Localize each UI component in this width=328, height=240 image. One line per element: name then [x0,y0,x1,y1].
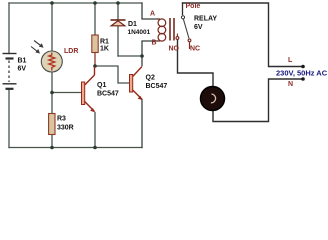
relay core bar 2 [173,18,175,41]
wire Q2 emitter column [141,100,143,148]
junction node LDR R3 Q1 base [50,91,54,95]
svg-text:1K: 1K [100,46,109,53]
terminal dot L [301,65,305,69]
relay core bar 1 [169,18,171,41]
svg-text:NO: NO [169,46,180,53]
wire R1 column top [94,3,96,35]
junction node on top rail at D1 [116,1,120,5]
resistor R1 [92,35,98,53]
svg-text:Q2: Q2 [146,75,155,82]
battery B1 [3,54,17,89]
wire NO contact to lamp [178,40,214,87]
svg-text:D1: D1 [128,21,137,28]
wire D1 column [117,3,119,56]
junction node on bottom rail at R3 [50,146,54,150]
svg-text:330R: 330R [57,125,74,132]
transistor Q1 [82,67,95,113]
svg-text:L: L [288,57,293,64]
wire top rail [9,2,142,4]
junction node D1 anode at Q2 collector [140,54,144,58]
relay pole contact circle [181,16,184,19]
relay NC stub [189,42,191,49]
wire R3 column [51,93,53,148]
svg-text:Pole: Pole [186,3,201,10]
svg-text:R1: R1 [100,39,109,46]
svg-text:6V: 6V [194,24,203,31]
wire Q1 base [52,92,82,94]
wire R1 bottom lead [94,53,96,67]
relay NO pin stub [176,34,178,37]
resistor R3 [49,114,55,135]
svg-text:BC547: BC547 [146,83,168,90]
wire pole to L terminal [183,3,304,67]
junction node on bottom rail at Q1 emitter [93,146,97,150]
svg-text:A: A [150,11,155,18]
relay NO contact [176,37,179,40]
svg-text:230V, 50Hz AC: 230V, 50Hz AC [276,69,328,78]
svg-text:1N4001: 1N4001 [128,29,151,36]
wire Q1 emitter column [94,113,96,148]
transistor Q2 [130,67,143,101]
svg-text:BC547: BC547 [97,91,119,98]
lamp L1 [201,87,225,111]
junction node R1 Q1 collector [93,64,97,68]
svg-text:LDR: LDR [64,48,78,55]
wire Q1 collector to Q2 base [95,66,130,83]
svg-text:Q1: Q1 [97,82,106,89]
wire pole riser [182,3,184,15]
svg-text:NC: NC [190,46,200,53]
svg-text:R3: R3 [57,116,66,123]
wire battery column top [8,3,10,54]
svg-text:RELAY: RELAY [194,16,217,23]
svg-text:B1: B1 [18,58,27,65]
terminal dot N [301,77,305,81]
svg-text:6V: 6V [18,66,27,73]
LDR light arrow 1 [34,41,42,47]
relay RL1 coil [158,19,166,41]
wire N terminal to lamp [213,79,303,122]
wire relay B stub to Q2 collector [142,41,158,66]
junction node on top rail at R1 [93,1,97,5]
diode D1 [111,20,126,26]
svg-text:N: N [288,81,293,88]
junction node on top rail at LDR [50,1,54,5]
wire battery column bottom [8,89,10,148]
LDR [31,41,62,73]
wire LDR column [51,3,53,93]
relay switch arm [183,19,189,39]
wire bottom rail [9,147,142,149]
LDR light arrow 2 [31,47,39,53]
relay NC contact [188,39,191,42]
wire relay A stub [142,3,158,19]
svg-text:B: B [152,40,157,47]
wire D1 anode link [118,55,142,57]
